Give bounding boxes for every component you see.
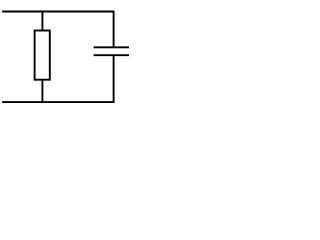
wire resistor top lead (41, 12, 43, 31)
wire top horizontal rail with right corner down to capacitor (2, 12, 113, 48)
resistor R1 body (35, 31, 50, 80)
capacitor C1 bottom plate (94, 54, 129, 56)
wire from capacitor bottom plate down and bottom horizontal rail (2, 55, 113, 102)
wire resistor bottom lead (41, 80, 43, 102)
capacitor C1 top plate (94, 46, 129, 48)
